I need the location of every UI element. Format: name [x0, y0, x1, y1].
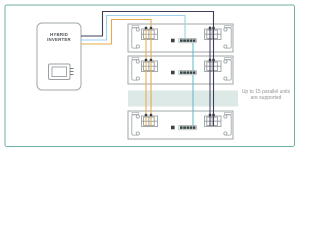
hybrid inverter U1: [37, 23, 81, 90]
battery unit BAT1: [128, 24, 233, 52]
svg-text:are supported: are supported: [251, 95, 282, 101]
wire: orange daisy-chain link: [145, 27, 147, 127]
wire: DC+ navy from inverter over top to right connectors: [81, 12, 214, 127]
parallel-units band: [128, 91, 238, 107]
note text: [242, 89, 291, 101]
wire: comms light blue from inverter to BAT1 strip: [81, 16, 185, 41]
wire: comms teal link BAT2 to BAT3: [192, 75, 194, 125]
svg-text:INVERTER: INVERTER: [47, 37, 71, 42]
wire: navy daisy-chain link: [209, 27, 211, 127]
terminal caps BAT1: [145, 27, 215, 29]
battery unit BAT3: [128, 111, 233, 139]
inverter display screen: [49, 64, 71, 80]
wire: DC orange from inverter over top to left connectors: [81, 20, 151, 127]
wire: comms teal link BAT1 to BAT2: [192, 43, 194, 70]
terminal caps BAT3: [145, 114, 215, 116]
battery unit BAT2: [128, 56, 233, 84]
outer teal border frame: [5, 5, 295, 147]
terminal caps BAT2: [145, 59, 215, 61]
